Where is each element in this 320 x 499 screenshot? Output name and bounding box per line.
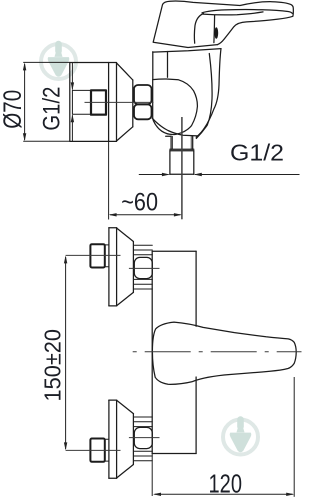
svg-text:~60: ~60 xyxy=(121,189,158,217)
svg-text:G1/2: G1/2 xyxy=(230,139,284,165)
svg-text:Ø70: Ø70 xyxy=(0,90,27,129)
svg-text:G1/2: G1/2 xyxy=(38,87,65,131)
svg-text:120: 120 xyxy=(209,468,243,498)
svg-text:150±20: 150±20 xyxy=(40,329,66,402)
